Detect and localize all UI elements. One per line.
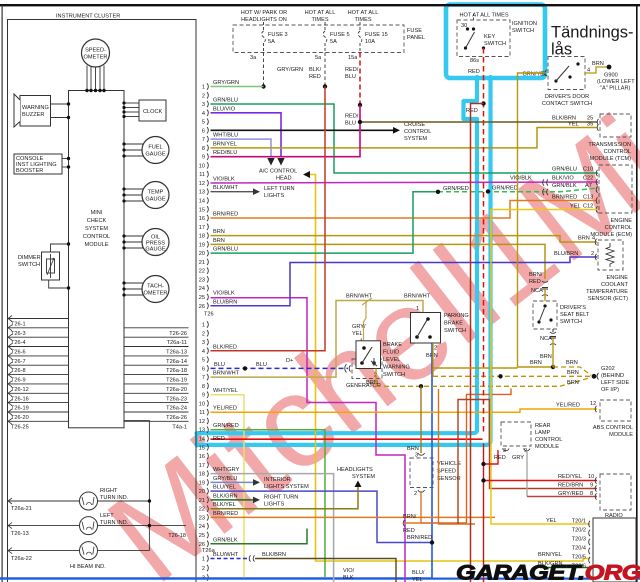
svg-text:FLUID: FLUID: [383, 350, 399, 356]
wire BLU/WHT T26a-1 splice BLK/BRN: [211, 558, 249, 560]
svg-text:5A: 5A: [330, 39, 337, 45]
svg-text:ENGINE: ENGINE: [607, 275, 629, 281]
svg-text:3: 3: [202, 340, 205, 346]
svg-text:VIO/BLK: VIO/BLK: [510, 176, 532, 182]
svg-text:NCA: NCA: [531, 288, 543, 294]
svg-text:HOT AT ALL: HOT AT ALL: [348, 10, 379, 16]
svg-text:20: 20: [199, 251, 205, 257]
svg-text:RED: RED: [466, 108, 478, 114]
svg-text:BLU: BLU: [345, 74, 356, 80]
svg-text:GAUGE: GAUGE: [145, 152, 165, 158]
svg-text:VIO/: VIO/: [343, 568, 355, 574]
svg-text:GRY/: GRY/: [352, 324, 366, 330]
svg-text:C12: C12: [583, 204, 593, 210]
svg-text:D+: D+: [286, 358, 293, 364]
svg-text:BLK/GRN: BLK/GRN: [213, 493, 238, 499]
svg-text:IGNITION: IGNITION: [512, 21, 537, 27]
svg-text:10: 10: [588, 474, 594, 480]
fuse 5: [323, 22, 327, 53]
svg-text:YEL/RED: YEL/RED: [213, 406, 237, 412]
svg-text:MODULE: MODULE: [609, 432, 633, 438]
svg-text:CONTROL: CONTROL: [535, 437, 562, 443]
svg-text:GRN/BLU: GRN/BLU: [552, 167, 577, 173]
svg-text:BLK/RED: BLK/RED: [213, 344, 237, 350]
vehicle speed sensor: [410, 458, 433, 488]
svg-text:RED/YEL: RED/YEL: [558, 474, 582, 480]
svg-text:KEY: KEY: [484, 34, 495, 40]
svg-text:8: 8: [202, 146, 205, 152]
svg-text:18: 18: [199, 472, 205, 478]
svg-text:25: 25: [199, 295, 205, 301]
svg-text:5: 5: [202, 358, 205, 364]
svg-text:lås: lås: [551, 41, 572, 59]
wire RED T26-14 (highlighted): [211, 438, 483, 440]
svg-text:BLU: BLU: [345, 121, 356, 127]
svg-text:DIMMER: DIMMER: [18, 255, 41, 261]
speedometer wires: [87, 66, 104, 91]
svg-text:HEADLIGHTS: HEADLIGHTS: [337, 467, 373, 473]
svg-text:A/C CONTROL: A/C CONTROL: [259, 169, 297, 175]
svg-text:TACH-: TACH-: [147, 284, 164, 290]
svg-text:C13: C13: [583, 195, 593, 201]
highlight tube right side: [197, 77, 491, 445]
svg-text:9: 9: [590, 483, 593, 489]
svg-text:23: 23: [199, 277, 205, 283]
wire BLU/VIO T26-4 to A/C control head: [211, 113, 282, 157]
wire BLK/GRN T26-21 to right turn lights: [211, 499, 254, 501]
svg-text:ABS CONTROL: ABS CONTROL: [593, 425, 633, 431]
clock: [139, 100, 166, 121]
svg-text:T26-13: T26-13: [11, 531, 29, 537]
wire BRN/RED T26-16 to ECM C13: [211, 201, 598, 219]
wire GRN/RED dashed to ECM A7: [438, 188, 598, 192]
wire fuse3 down dashed: [263, 53, 265, 87]
svg-text:HEAD: HEAD: [276, 176, 292, 182]
wire BLK/RED T26-4 from fuse 5: [211, 87, 326, 351]
svg-text:SPEED: SPEED: [437, 469, 456, 475]
svg-text:3a: 3a: [250, 55, 257, 61]
svg-text:T26-25: T26-25: [11, 424, 29, 430]
svg-text:FUSE 5: FUSE 5: [330, 32, 350, 38]
wire GRY/BLU T26-19 to interior lights: [211, 481, 254, 483]
svg-text:SWITCH: SWITCH: [512, 28, 534, 34]
T26 connector rows right side: [124, 328, 189, 422]
wire YEL/RED T26-11 to ABS 12: [211, 409, 598, 412]
svg-text:RED/BLU: RED/BLU: [213, 150, 237, 156]
svg-text:FUEL: FUEL: [148, 145, 162, 151]
wire GRN/BLU T26-3 to ECM C10: [211, 104, 599, 173]
svg-text:BLK: BLK: [343, 575, 354, 581]
right turn indicator lamp: [80, 492, 98, 510]
page right border: [636, 5, 638, 582]
svg-text:16: 16: [199, 454, 205, 460]
svg-text:BRN: BRN: [578, 236, 590, 242]
svg-text:T26a-24: T26a-24: [166, 406, 187, 412]
instrument cluster box: [8, 20, 197, 582]
svg-text:GRN/BLU: GRN/BLU: [213, 247, 238, 253]
ignition switch box: [457, 20, 510, 57]
svg-text:VIO/BLK: VIO/BLK: [213, 291, 235, 297]
svg-text:BRN/YEL: BRN/YEL: [538, 552, 562, 558]
wire WHT/BLU T26-7 to A/C control head: [211, 139, 272, 157]
svg-text:17: 17: [199, 225, 205, 231]
svg-text:YEL: YEL: [546, 518, 557, 524]
svg-text:6: 6: [202, 366, 205, 372]
svg-text:15a: 15a: [348, 55, 358, 61]
svg-text:INSTRUMENT CLUSTER: INSTRUMENT CLUSTER: [56, 14, 120, 20]
svg-text:26: 26: [199, 542, 205, 548]
temp gauge: [142, 182, 169, 209]
svg-text:SWITCH: SWITCH: [383, 372, 405, 378]
svg-text:SEAT BELT: SEAT BELT: [560, 312, 590, 318]
svg-text:SWITCH: SWITCH: [484, 41, 506, 47]
svg-text:T26a-20: T26a-20: [166, 387, 187, 393]
wire BRN/WHT T26-7 to parking brake: [211, 301, 424, 378]
svg-text:T26-26: T26-26: [169, 331, 187, 337]
svg-text:BLU: BLU: [214, 362, 225, 368]
svg-text:SPEED-: SPEED-: [85, 48, 106, 54]
svg-text:TURN IND.: TURN IND.: [100, 495, 129, 501]
warning buzzer: [20, 96, 51, 127]
svg-text:8: 8: [590, 491, 593, 497]
svg-text:24: 24: [199, 286, 205, 292]
highlight band left cap: [195, 433, 198, 445]
svg-text:T26-7: T26-7: [11, 359, 26, 365]
svg-text:13: 13: [199, 190, 205, 196]
svg-text:BRN/WHT: BRN/WHT: [404, 294, 431, 300]
svg-text:1: 1: [202, 323, 205, 329]
wire fuse5 down dashed: [324, 53, 326, 87]
svg-text:FUSE 3: FUSE 3: [268, 32, 288, 38]
svg-text:26: 26: [199, 304, 205, 310]
svg-text:TEMP: TEMP: [148, 190, 164, 196]
wire YEL ECM C12 to T20/1: [491, 210, 597, 525]
svg-text:6: 6: [202, 128, 205, 134]
svg-text:T20/4: T20/4: [572, 546, 586, 552]
wire VIO/BLK T26-12 to ECM C22: [211, 182, 599, 183]
svg-text:MINI: MINI: [91, 210, 103, 216]
svg-text:BLU/BRN: BLU/BRN: [554, 251, 578, 257]
svg-text:WHT/YEL: WHT/YEL: [213, 388, 238, 394]
mini check system control module box: [69, 91, 125, 428]
svg-text:BLU/VIO: BLU/VIO: [213, 106, 236, 112]
svg-text:YEL: YEL: [352, 331, 363, 337]
highlight tube left side: [197, 77, 478, 433]
svg-text:RIGHT: RIGHT: [100, 488, 118, 494]
svg-text:GRN/BLU: GRN/BLU: [213, 98, 238, 104]
svg-text:BLU/: BLU/: [412, 570, 425, 576]
wire BRN/RED vertical x466: [421, 389, 511, 524]
svg-text:10: 10: [199, 401, 205, 407]
svg-text:SWITCH: SWITCH: [18, 262, 40, 268]
svg-text:T26-3: T26-3: [11, 331, 26, 337]
svg-text:BRN/RED: BRN/RED: [213, 511, 238, 517]
svg-text:19: 19: [199, 480, 205, 486]
svg-text:HOT AT ALL TIMES: HOT AT ALL TIMES: [459, 13, 508, 19]
wire GRY/YEL to brake fluid switch: [364, 301, 367, 341]
svg-text:BRAKE: BRAKE: [444, 321, 463, 327]
svg-text:VIO/BLK: VIO/BLK: [213, 177, 235, 183]
fuel gauge: [142, 137, 169, 164]
svg-text:FUSE: FUSE: [407, 28, 422, 34]
key switch contacts: [473, 14, 475, 20]
svg-text:SENSOR (ECT): SENSOR (ECT): [588, 296, 628, 302]
svg-text:BRN: BRN: [567, 380, 579, 386]
svg-text:T26-8: T26-8: [11, 368, 26, 374]
svg-text:21: 21: [199, 260, 205, 266]
svg-text:BRN: BRN: [592, 61, 604, 67]
wire BRN vertical x438: [439, 389, 476, 524]
svg-text:BRN: BRN: [213, 238, 225, 244]
svg-text:GRY: GRY: [512, 455, 524, 461]
svg-text:YEL: YEL: [568, 122, 579, 128]
highlight box ignition: [446, 5, 545, 79]
page left border: [2, 5, 3, 582]
ECT box: [598, 240, 623, 270]
svg-text:WHT/GRY: WHT/GRY: [213, 467, 240, 473]
node 15a junction: [358, 103, 362, 107]
svg-text:T26-12: T26-12: [11, 387, 29, 393]
svg-text:GRN/BLK: GRN/BLK: [552, 183, 577, 189]
svg-text:BRN/RED: BRN/RED: [407, 535, 432, 541]
svg-text:OMETER: OMETER: [84, 55, 108, 61]
svg-text:LIGHTS: LIGHTS: [264, 193, 284, 199]
svg-text:T26a-21: T26a-21: [11, 506, 32, 512]
svg-text:PANEL: PANEL: [407, 35, 425, 41]
wire GRN/BLU T26-20 to GRN/RED node: [211, 192, 439, 253]
svg-text:3: 3: [415, 453, 418, 459]
svg-text:TURN IND.: TURN IND.: [100, 520, 129, 526]
svg-text:RED/BRN: RED/BRN: [558, 483, 583, 489]
wire BRN T26-18 to ECT 4: [211, 236, 598, 242]
wire BRN horizontal y368: [433, 367, 518, 369]
svg-text:BRN: BRN: [566, 360, 578, 366]
svg-text:CONTROL: CONTROL: [404, 129, 431, 135]
svg-text:T26a-13: T26a-13: [166, 350, 187, 356]
svg-text:G900: G900: [604, 73, 618, 79]
wire BRN dashed brake fluid to G202: [375, 369, 377, 387]
wire BRN parking brake to G202: [432, 343, 434, 376]
wire RED/BLU T26-9 from fuse 15: [211, 105, 361, 157]
driver's door contact switch: [548, 57, 585, 90]
wire BRN T26-19 to seat belt switch: [211, 244, 546, 279]
svg-text:T26-16: T26-16: [11, 396, 29, 402]
svg-text:T26a-11: T26a-11: [167, 340, 187, 346]
wire BLK/GRN to T20/6: [540, 567, 590, 569]
svg-text:PARKING: PARKING: [444, 313, 469, 319]
svg-text:22: 22: [199, 269, 205, 275]
svg-text:GRY/GRN: GRY/GRN: [277, 67, 303, 73]
svg-text:TEMPERATURE: TEMPERATURE: [586, 289, 628, 295]
svg-text:T26a-19: T26a-19: [166, 378, 187, 384]
svg-text:4: 4: [592, 236, 595, 242]
wire GRY/GRN T26-1: [211, 86, 264, 88]
speedometer: [82, 39, 110, 67]
svg-text:T26-4: T26-4: [11, 340, 26, 346]
svg-text:BOOSTER: BOOSTER: [16, 168, 43, 174]
svg-text:T20/2: T20/2: [572, 528, 586, 534]
svg-text:HOT W/ PARK OR: HOT W/ PARK OR: [241, 10, 287, 16]
svg-text:YEL: YEL: [412, 577, 423, 582]
rear lamp control module: [501, 422, 531, 446]
svg-text:86s: 86s: [470, 58, 479, 64]
svg-text:17: 17: [199, 463, 205, 469]
svg-text:T26-19: T26-19: [11, 406, 29, 412]
svg-text:FUSE 15: FUSE 15: [365, 32, 388, 38]
svg-text:9: 9: [202, 393, 205, 399]
svg-text:GRN/BLK: GRN/BLK: [213, 537, 238, 543]
svg-text:G202: G202: [601, 366, 615, 372]
svg-text:T26a-22: T26a-22: [11, 556, 32, 562]
fuse 15: [358, 22, 362, 53]
wire BRN/YEL T26-8 to TCM 35: [211, 128, 598, 148]
svg-text:T20/3: T20/3: [572, 537, 586, 543]
wire BLK/YEL T26-22: [211, 487, 359, 509]
svg-text:7: 7: [202, 375, 205, 381]
svg-text:SWITCH: SWITCH: [560, 319, 582, 325]
svg-text:14: 14: [199, 437, 205, 443]
svg-text:GRY/BLU: GRY/BLU: [213, 476, 237, 482]
page top border: [0, 4, 640, 6]
node G202: [592, 374, 597, 379]
left turn indicator lamp: [80, 517, 98, 535]
wire GRY rear lamp pin9: [526, 450, 528, 497]
svg-text:RED/: RED/: [345, 67, 359, 73]
svg-text:BLU/WHT: BLU/WHT: [213, 552, 239, 558]
svg-text:SYSTEM: SYSTEM: [404, 136, 427, 142]
svg-text:1: 1: [416, 306, 419, 312]
T20 connector box: [593, 518, 636, 582]
svg-text:HEADLIGHTS ON: HEADLIGHTS ON: [241, 17, 287, 23]
svg-text:5a: 5a: [315, 55, 322, 61]
wire BRN to G900: [585, 67, 607, 73]
svg-text:BLU/YEL: BLU/YEL: [213, 485, 236, 491]
svg-text:BRN/WHT: BRN/WHT: [346, 294, 373, 300]
svg-text:9: 9: [202, 155, 205, 161]
svg-text:BRN: BRN: [530, 360, 542, 366]
svg-text:BRN/WHT: BRN/WHT: [213, 371, 240, 377]
svg-text:BLU/BRN: BLU/BRN: [213, 299, 237, 305]
svg-text:RED: RED: [403, 528, 415, 534]
fuse panel box: [233, 25, 404, 53]
svg-text:23: 23: [199, 515, 205, 521]
wire RED below band to bottom: [483, 444, 485, 582]
svg-text:T26a-26: T26a-26: [166, 415, 187, 421]
svg-text:11: 11: [199, 172, 205, 178]
wire BLU T26-6 to generator D+: [211, 367, 349, 369]
svg-text:T20/5: T20/5: [572, 555, 586, 561]
svg-text:2: 2: [414, 491, 417, 497]
svg-text:15: 15: [199, 207, 205, 213]
svg-text:BRN: BRN: [426, 353, 438, 359]
svg-text:YEL/RED: YEL/RED: [556, 403, 580, 409]
svg-text:12: 12: [199, 181, 205, 187]
driver's seat belt switch: [533, 301, 557, 329]
svg-text:T26-20: T26-20: [11, 415, 29, 421]
svg-text:T26-6: T26-6: [11, 350, 26, 356]
svg-text:BLK/BRN: BLK/BRN: [262, 552, 286, 558]
svg-text:BLK/VIO: BLK/VIO: [552, 176, 574, 182]
svg-text:CLOCK: CLOCK: [143, 109, 163, 115]
svg-text:BLK/YEL: BLK/YEL: [213, 502, 236, 508]
node 5a junction: [323, 84, 327, 88]
svg-text:T26-9: T26-9: [11, 378, 26, 384]
svg-text:T26-18: T26-18: [168, 533, 186, 539]
console inst lighting booster: [14, 154, 62, 174]
svg-text:LEFT: LEFT: [100, 513, 114, 519]
svg-text:5A: 5A: [268, 39, 275, 45]
svg-text:12: 12: [590, 401, 596, 407]
wire BRN/YEL door switch down to G202: [518, 73, 553, 367]
svg-text:1: 1: [202, 557, 205, 563]
svg-text:3: 3: [202, 102, 205, 108]
svg-text:TIMES: TIMES: [354, 17, 371, 23]
svg-text:T26a-18: T26a-18: [166, 368, 187, 374]
svg-text:18: 18: [199, 234, 205, 240]
svg-text:19: 19: [199, 242, 205, 248]
svg-text:BRAKE: BRAKE: [383, 342, 402, 348]
svg-text:RED/: RED/: [345, 114, 359, 120]
svg-text:C10: C10: [583, 167, 593, 173]
svg-text:15: 15: [199, 445, 205, 451]
svg-text:10A: 10A: [365, 39, 375, 45]
svg-text:LEVEL: LEVEL: [383, 357, 400, 363]
svg-text:WARNING: WARNING: [383, 365, 410, 371]
svg-text:7: 7: [202, 137, 205, 143]
wire RED solid from ignition junction: [471, 104, 484, 582]
svg-text:CRUISE: CRUISE: [404, 122, 425, 128]
svg-text:WARNING: WARNING: [22, 105, 49, 111]
oil press gauge: [142, 229, 169, 256]
wire GRN/RED T26-13 to T26-26 GRN/BLK: [211, 430, 326, 577]
svg-text:13: 13: [199, 428, 205, 434]
svg-text:CONTROL: CONTROL: [604, 149, 631, 155]
svg-text:INTERIOR: INTERIOR: [264, 477, 291, 483]
svg-text:16: 16: [199, 216, 205, 222]
svg-text:T26a-23: T26a-23: [166, 396, 187, 402]
svg-text:GRN/RED: GRN/RED: [443, 186, 469, 192]
generator: [345, 364, 351, 372]
svg-text:8: 8: [202, 384, 205, 390]
wire RED/BRN staple to radio: [458, 400, 597, 525]
svg-text:RIGHT TURN: RIGHT TURN: [264, 495, 298, 501]
svg-text:T26: T26: [204, 312, 214, 318]
svg-text:OMETER: OMETER: [144, 291, 168, 297]
svg-text:CONTACT SWITCH: CONTACT SWITCH: [542, 101, 592, 107]
wire BLK/BRN to TCM 25: [360, 121, 597, 123]
svg-text:SYSTEM: SYSTEM: [85, 226, 108, 232]
wire BLU/YEL T26-20: [211, 491, 433, 542]
svg-text:SENSOR: SENSOR: [437, 476, 461, 482]
svg-text:MODULE: MODULE: [535, 444, 559, 450]
wire BRN/RED T26-23: [211, 516, 496, 518]
svg-text:BLK/WHT: BLK/WHT: [213, 185, 238, 191]
svg-text:10: 10: [199, 163, 205, 169]
svg-text:2: 2: [202, 331, 205, 337]
svg-text:1: 1: [202, 85, 205, 91]
svg-text:GAUGE: GAUGE: [145, 247, 165, 253]
svg-text:YEL: YEL: [570, 204, 581, 210]
svg-text:BLK/: BLK/: [309, 67, 322, 73]
svg-text:20: 20: [199, 489, 205, 495]
wire BLK/WHT T26-13 to left turn lights: [211, 191, 254, 193]
svg-text:BRN: BRN: [540, 354, 552, 360]
svg-text:BRN/RED: BRN/RED: [213, 212, 238, 218]
wire RED rear lamp pin3: [484, 450, 499, 464]
svg-text:LEFT TURN: LEFT TURN: [264, 186, 295, 192]
svg-text:BUZZER: BUZZER: [22, 112, 44, 118]
wire BLU/YEL long vertical to bottom left: [0, 341, 432, 578]
